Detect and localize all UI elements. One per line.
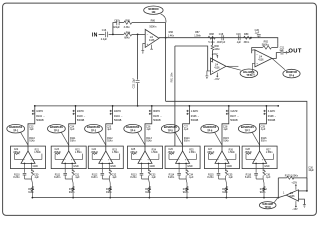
svg-text:TP-4: TP-4 xyxy=(130,129,136,132)
svg-text:BANDPASS: BANDPASS xyxy=(203,126,216,129)
svg-text:.1µF: .1µF xyxy=(261,128,266,131)
svg-text:R86: R86 xyxy=(151,19,156,22)
svg-text:5.1Kn: 5.1Kn xyxy=(208,41,215,44)
svg-text:400Hz: 400Hz xyxy=(114,110,122,113)
svg-text:.1µF: .1µF xyxy=(184,128,189,131)
svg-text:1.5Mn: 1.5Mn xyxy=(228,151,235,154)
svg-text:MONITOR: MONITOR xyxy=(286,72,297,74)
svg-text:91Kn: 91Kn xyxy=(184,140,190,143)
svg-text:GND: GND xyxy=(150,165,156,168)
svg-text:GND: GND xyxy=(73,165,79,168)
svg-text:BANDPASS: BANDPASS xyxy=(87,126,100,129)
svg-text:4136: 4136 xyxy=(149,39,155,42)
svg-text:.056µF: .056µF xyxy=(91,151,99,154)
svg-text:.1µF: .1µF xyxy=(146,128,151,131)
svg-text:GND: GND xyxy=(187,165,193,168)
svg-text:.1µF: .1µF xyxy=(112,176,117,179)
svg-text:500Kn: 500Kn xyxy=(149,26,157,29)
svg-text:1.5Mn: 1.5Mn xyxy=(34,151,41,154)
svg-text:91Kn: 91Kn xyxy=(260,191,266,194)
svg-text:.1µF: .1µF xyxy=(223,128,228,131)
svg-text:200Hz: 200Hz xyxy=(77,110,85,113)
svg-text:SUM AMP: SUM AMP xyxy=(262,203,273,206)
svg-text:.056µF: .056µF xyxy=(207,151,215,154)
svg-text:6.4kHz: 6.4kHz xyxy=(268,110,276,113)
svg-text:GND: GND xyxy=(227,165,233,168)
svg-text:TP-9: TP-9 xyxy=(289,75,295,77)
svg-text:1.5Mn: 1.5Mn xyxy=(112,151,119,154)
svg-text:.056µF: .056µF xyxy=(130,151,138,154)
svg-text:R103 →: R103 → xyxy=(77,115,86,118)
svg-text:C19: C19 xyxy=(236,33,241,36)
svg-text:500ΩB: 500ΩB xyxy=(191,119,199,122)
svg-text:OUT: OUT xyxy=(288,48,301,54)
svg-text:GND: GND xyxy=(33,165,39,168)
svg-text:R107 →: R107 → xyxy=(230,115,239,118)
svg-text:R108 →: R108 → xyxy=(268,115,277,118)
svg-text:.1µF: .1µF xyxy=(75,176,80,179)
svg-text:+15V: +15V xyxy=(291,182,297,185)
svg-text:2.2µF: 2.2µF xyxy=(101,38,108,41)
svg-text:.056µF: .056µF xyxy=(53,151,61,154)
svg-text:4136: 4136 xyxy=(289,195,295,198)
svg-text:4136: 4136 xyxy=(258,59,264,62)
svg-text:91Kn: 91Kn xyxy=(29,140,35,143)
svg-text:R120 100Kn: R120 100Kn xyxy=(285,174,299,177)
svg-text:BANDPASS: BANDPASS xyxy=(50,126,63,129)
svg-text:500ΩB: 500ΩB xyxy=(268,119,276,122)
svg-text:8.2Kn: 8.2Kn xyxy=(168,176,175,179)
svg-text:R91 1Mn: R91 1Mn xyxy=(171,72,174,82)
svg-text:100Hz: 100Hz xyxy=(36,110,44,113)
svg-text:.1µF: .1µF xyxy=(228,176,233,179)
svg-text:TP-3: TP-3 xyxy=(91,130,97,132)
svg-text:3.2kHz: 3.2kHz xyxy=(230,110,238,113)
svg-text:C22 10µF: C22 10µF xyxy=(133,77,136,88)
svg-text:1.5Mn: 1.5Mn xyxy=(189,151,196,154)
svg-text:.1µF: .1µF xyxy=(254,31,259,34)
svg-text:R84: R84 xyxy=(126,31,131,34)
svg-text:8.2Kn: 8.2Kn xyxy=(91,176,98,179)
svg-text:.056µF: .056µF xyxy=(167,151,175,154)
svg-text:8.2Kn: 8.2Kn xyxy=(245,176,252,179)
svg-text:.1µF: .1µF xyxy=(29,128,34,131)
svg-text:1.6kHz: 1.6kHz xyxy=(191,110,199,113)
svg-text:.1µF: .1µF xyxy=(266,176,271,179)
svg-text:91Kn: 91Kn xyxy=(183,191,189,194)
svg-text:IN: IN xyxy=(92,32,98,38)
svg-text:10µF: 10µF xyxy=(308,169,314,172)
svg-text:BANDPASS: BANDPASS xyxy=(126,126,139,129)
svg-text:139: 139 xyxy=(151,12,156,14)
svg-text:3.3Kn: 3.3Kn xyxy=(124,26,131,29)
svg-text:1.5Mn: 1.5Mn xyxy=(151,151,158,154)
svg-text:R88: R88 xyxy=(209,33,214,36)
svg-text:500ΩB: 500ΩB xyxy=(153,119,161,122)
svg-text:R102 →: R102 → xyxy=(36,115,45,118)
svg-text:GND: GND xyxy=(110,165,116,168)
svg-text:68Kn: 68Kn xyxy=(124,37,130,40)
svg-text:500ΩB: 500ΩB xyxy=(114,119,122,122)
svg-text:C16: C16 xyxy=(102,29,107,32)
svg-text:TP-7: TP-7 xyxy=(245,130,251,132)
svg-text:−15V: −15V xyxy=(214,78,220,81)
svg-text:800Hz: 800Hz xyxy=(153,110,161,113)
svg-text:.1µF: .1µF xyxy=(151,176,156,179)
svg-text:GND: GND xyxy=(264,165,270,168)
svg-text:91Kn: 91Kn xyxy=(145,191,151,194)
svg-text:C17: C17 xyxy=(114,20,119,23)
svg-text:91Kn: 91Kn xyxy=(223,140,229,143)
svg-text:.1µF: .1µF xyxy=(34,176,39,179)
svg-text:91Kn: 91Kn xyxy=(106,191,112,194)
svg-text:91Kn: 91Kn xyxy=(70,140,76,143)
svg-text:.1µF: .1µF xyxy=(189,176,194,179)
svg-text:.1µF: .1µF xyxy=(107,128,112,131)
svg-text:500ΩB: 500ΩB xyxy=(77,119,85,122)
svg-text:91Kn: 91Kn xyxy=(69,191,75,194)
svg-text:1.5Mn: 1.5Mn xyxy=(266,151,273,154)
svg-text:−15V: −15V xyxy=(292,208,298,211)
svg-text:R85: R85 xyxy=(125,20,130,23)
svg-text:91Kn: 91Kn xyxy=(146,140,152,143)
svg-text:.056µF: .056µF xyxy=(13,151,21,154)
svg-text:4136: 4136 xyxy=(214,67,220,70)
svg-text:BANDPASS: BANDPASS xyxy=(9,126,22,129)
svg-text:8.2Kn: 8.2Kn xyxy=(54,176,61,179)
svg-text:91Kn: 91Kn xyxy=(107,140,113,143)
svg-text:.056µF: .056µF xyxy=(244,151,252,154)
svg-text:560Kn: 560Kn xyxy=(262,43,270,46)
svg-text:TP-2: TP-2 xyxy=(54,130,60,132)
svg-text:91Kn: 91Kn xyxy=(28,191,34,194)
svg-text:BANDPASS: BANDPASS xyxy=(241,126,254,129)
svg-text:500ΩB: 500ΩB xyxy=(230,119,238,122)
svg-text:.0047µF: .0047µF xyxy=(216,41,225,44)
svg-text:1.4Kn: 1.4Kn xyxy=(168,35,175,38)
svg-text:MXR6CM: MXR6CM xyxy=(148,9,158,11)
svg-text:33Kn: 33Kn xyxy=(244,41,250,44)
svg-text:R89: R89 xyxy=(244,33,249,36)
svg-text:R105 →: R105 → xyxy=(153,115,162,118)
svg-text:.022µF: .022µF xyxy=(112,26,120,29)
svg-text:10Kn: 10Kn xyxy=(214,48,220,51)
svg-text:−15V: −15V xyxy=(249,73,255,76)
svg-text:TP-1: TP-1 xyxy=(13,130,19,132)
svg-text:R104 →: R104 → xyxy=(114,115,123,118)
svg-text:8.2Kn: 8.2Kn xyxy=(130,176,137,179)
svg-text:1.5Mn: 1.5Mn xyxy=(194,35,201,38)
svg-text:91Kn: 91Kn xyxy=(222,191,228,194)
svg-text:TP-10: TP-10 xyxy=(265,207,272,209)
svg-text:.1µF: .1µF xyxy=(236,41,241,44)
svg-text:C18: C18 xyxy=(219,33,224,36)
svg-text:1.5Mn: 1.5Mn xyxy=(75,151,82,154)
svg-text:TP-6: TP-6 xyxy=(207,130,213,132)
svg-text:8.2Kn: 8.2Kn xyxy=(207,176,214,179)
svg-text:500ΩB: 500ΩB xyxy=(36,119,44,122)
svg-text:.1µF: .1µF xyxy=(70,128,75,131)
svg-text:R106 →: R106 → xyxy=(191,115,200,118)
svg-text:BANDPASS: BANDPASS xyxy=(164,126,177,129)
svg-text:91Kn: 91Kn xyxy=(261,140,267,143)
svg-text:1µF: 1µF xyxy=(279,49,284,52)
svg-text:8.2Kn: 8.2Kn xyxy=(13,176,20,179)
svg-text:TP-5: TP-5 xyxy=(168,130,174,132)
